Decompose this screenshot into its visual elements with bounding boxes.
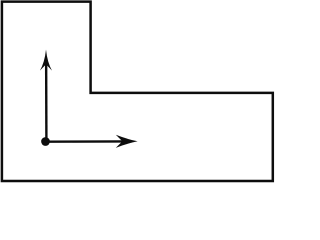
y-axis arrowhead <box>40 50 52 71</box>
L-shaped region outline <box>2 2 273 181</box>
y-axis shaft <box>45 64 48 142</box>
origin dot <box>41 137 50 146</box>
x-axis arrowhead <box>116 135 138 148</box>
x-axis shaft <box>46 140 124 143</box>
